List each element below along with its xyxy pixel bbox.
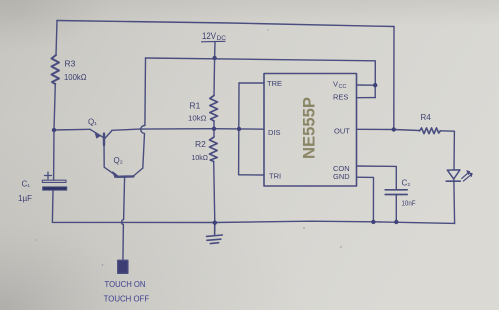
touch plate: [118, 260, 128, 273]
node C2 on bottom rail: [394, 220, 398, 224]
svg-text:R3: R3: [65, 59, 76, 69]
svg-text:Q₁: Q₁: [88, 118, 97, 127]
wire LED to bottom rail: [453, 179, 456, 224]
wire top rail right drop to OUT node: [393, 27, 395, 130]
svg-text:1µF: 1µF: [18, 194, 32, 203]
resistor R3: [52, 55, 60, 84]
svg-text:R1: R1: [190, 101, 201, 111]
wire bottom rail: [52, 221, 454, 223]
wire Vcc pin: [357, 84, 376, 86]
svg-text:OUT: OUT: [334, 127, 350, 136]
IC U1 NE555P box: [264, 74, 357, 187]
wire CON pin to C2: [357, 166, 397, 190]
node Vcc junction: [373, 83, 377, 87]
transistor Q2: [113, 168, 143, 177]
wire node A to C1: [53, 130, 55, 180]
wire R4 to LED: [440, 131, 454, 170]
svg-text:12V: 12V: [202, 31, 217, 42]
svg-text:TRE: TRE: [267, 79, 282, 88]
wire 12VDC drop: [214, 42, 215, 96]
wire C2 to bottom rail: [395, 195, 397, 223]
node GND pin on bottom rail: [371, 220, 375, 224]
svg-text:NE555P: NE555P: [300, 97, 319, 159]
transistor Q1: [90, 129, 112, 145]
svg-text:10kΩ: 10kΩ: [192, 153, 209, 162]
svg-text:TRI: TRI: [269, 172, 281, 181]
wire TRE-TRI link vertical: [238, 83, 240, 175]
svg-text:RES: RES: [333, 93, 348, 102]
wire second rail left drop to Q2 collector (with hop at DIS wire): [141, 58, 146, 168]
capacitor C1: [42, 172, 66, 190]
pencil specks: [35, 29, 341, 265]
svg-text:R4: R4: [421, 113, 432, 122]
ground: [207, 223, 223, 244]
wire second rail right drop to Vcc/RES: [374, 61, 376, 98]
wire TRE pin to link: [239, 82, 264, 84]
svg-text:Q₂: Q₂: [114, 156, 123, 165]
label 12VDC: [201, 31, 226, 42]
svg-text:DIS: DIS: [268, 128, 281, 137]
wire Q2 base down to touch plate (with small hop at rail): [122, 177, 125, 262]
node R2/ground on bottom rail: [213, 221, 217, 225]
svg-text:TOUCH ON: TOUCH ON: [105, 279, 146, 289]
wire TRI pin: [239, 174, 264, 176]
node OUT / top rail junction: [392, 127, 396, 131]
wire node A to Q1 emitter: [54, 128, 90, 131]
node 12VDC junction: [212, 56, 216, 60]
LED D1: [446, 170, 472, 181]
wire OUT pin to R4: [357, 129, 420, 130]
svg-text:CC: CC: [339, 84, 347, 90]
resistor R4: [420, 128, 441, 134]
node TRE-TRI link on DIS wire: [237, 127, 241, 131]
node R1/R2 junction: [212, 127, 216, 131]
svg-text:10kΩ: 10kΩ: [188, 114, 207, 123]
wire left rail upper (corner to R3): [56, 21, 57, 56]
node A left rail: [52, 128, 56, 132]
wire Q1 base down to Q2 emitter: [104, 144, 117, 176]
wire R1 bottom to node: [213, 121, 215, 129]
wire second rail: [146, 58, 375, 61]
resistor R2: [210, 137, 218, 162]
wire R3 to node A: [54, 84, 55, 130]
svg-text:10nF: 10nF: [402, 198, 416, 207]
wire RES pin: [357, 97, 376, 99]
svg-text:100kΩ: 100kΩ: [64, 73, 87, 82]
resistor R1: [210, 96, 218, 122]
svg-text:R2: R2: [195, 139, 206, 149]
svg-text:TOUCH OFF: TOUCH OFF: [104, 294, 150, 304]
wire Q1 collector to DIS: [112, 129, 264, 131]
wire node to R2 top: [213, 129, 215, 137]
wire GND pin to bottom rail: [357, 177, 374, 222]
svg-text:C₂: C₂: [402, 179, 411, 188]
wire R2 bottom to ground rail: [214, 162, 215, 223]
svg-text:GND: GND: [333, 172, 350, 181]
wire C1 to bottom-left corner: [51, 190, 54, 222]
svg-text:V: V: [333, 80, 338, 89]
capacitor C2: [385, 190, 407, 195]
svg-text:C₁: C₁: [22, 180, 31, 189]
wire top rail: [57, 21, 394, 27]
